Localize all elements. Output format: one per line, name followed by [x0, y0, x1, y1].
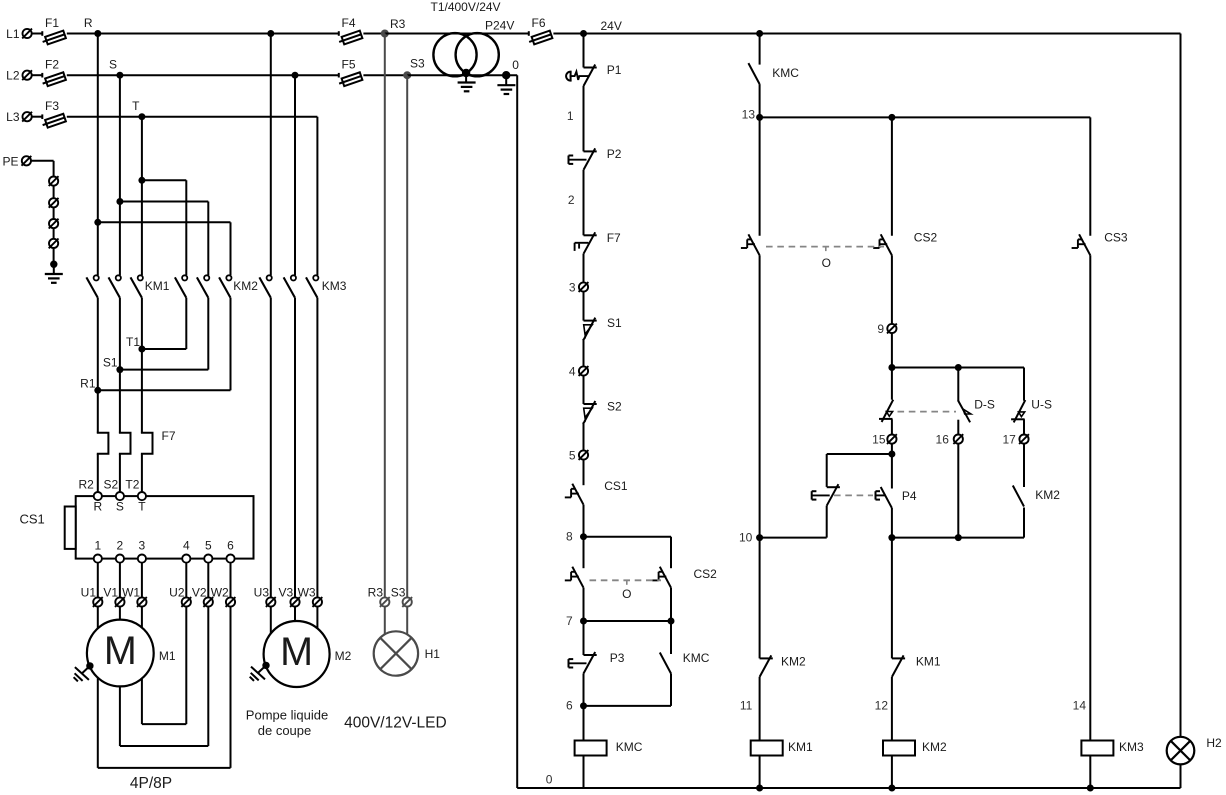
wire KM1 NC to coil KM2 — [875, 677, 892, 741]
fuse F6 — [528, 16, 553, 46]
contact KM2 NC interlock — [760, 655, 806, 677]
wire KMC contact to node 13 — [759, 84, 761, 117]
coil KMC — [575, 740, 643, 756]
contactor KM3 main contacts — [259, 275, 346, 298]
svg-text:CS2: CS2 — [914, 231, 938, 245]
node S3 (lamp circuit) — [403, 57, 425, 80]
terminal U2 — [169, 586, 191, 607]
wire U1 into motor M1 — [97, 607, 99, 629]
svg-text:R: R — [93, 500, 102, 514]
coil KM1 — [751, 740, 813, 756]
limit switch S2 NC — [584, 400, 623, 424]
wire node 8 branch to CS2 right contact — [584, 537, 672, 569]
transformer centre-tap ground node — [462, 69, 470, 77]
wire CS1 to node 8 — [583, 505, 585, 537]
wire T bus down to KM1 — [141, 117, 143, 276]
wire CS1 pin2 to terminal V1 — [119, 563, 121, 598]
wire F1 to node R — [67, 33, 98, 35]
svg-text:S2: S2 — [104, 478, 119, 492]
svg-text:R3: R3 — [390, 17, 406, 31]
pushbutton P2 NC — [569, 147, 622, 170]
pushbutton P4 twin contact NC — [812, 484, 840, 506]
terminal 15 — [872, 432, 897, 446]
fuse F3 — [41, 99, 66, 129]
junction 24V rail / KMC contact — [756, 30, 763, 37]
CS1 pin 1 — [94, 539, 102, 563]
wire U3 into motor M2 — [270, 607, 272, 634]
label Pompe liquide de coupe — [246, 708, 328, 739]
svg-text:T: T — [138, 500, 146, 514]
limit switch S1 NC — [584, 316, 623, 340]
svg-text:S3: S3 — [410, 57, 425, 71]
wire KM3 pole2 to terminal V3 — [294, 298, 296, 598]
svg-text:KMC: KMC — [683, 651, 710, 665]
node T — [132, 99, 145, 120]
svg-text:V1: V1 — [103, 586, 118, 600]
node 24V — [580, 19, 622, 37]
svg-text:KMC: KMC — [772, 66, 799, 80]
svg-text:P24V: P24V — [485, 19, 514, 33]
wire KM3 pole3 to terminal W3 — [316, 298, 318, 598]
wire S1 to KM2 pole2 bottom — [120, 298, 208, 370]
svg-text:T: T — [132, 99, 140, 113]
wire D-S branch down — [957, 368, 959, 402]
fuse F2 — [41, 58, 66, 88]
wire F4 to node R3 — [363, 33, 384, 35]
svg-text:T1: T1 — [126, 335, 140, 349]
wire node 15b to P4 — [891, 454, 893, 489]
wire W3 into motor M2 — [316, 607, 318, 629]
wire node 15b to P4 twin NC — [827, 454, 892, 487]
svg-text:10: 10 — [739, 530, 753, 544]
cam switch CS2 contact (col3) NO — [873, 231, 937, 256]
wire L2 to fuse F2 — [32, 74, 43, 76]
pushbutton P3 NC — [569, 651, 625, 674]
wire 24V to P1 — [583, 34, 585, 68]
svg-text:R: R — [84, 16, 93, 30]
wire to terminal 15 — [891, 419, 893, 434]
svg-text:M1: M1 — [159, 649, 176, 663]
svg-text:KM2: KM2 — [781, 655, 806, 669]
wire KMC aux to node 6 — [584, 674, 672, 706]
CS1 pin S — [116, 492, 124, 514]
svg-text:W2: W2 — [211, 586, 229, 600]
terminal V2 — [192, 586, 213, 607]
wire CS3 column down — [1089, 117, 1091, 235]
wire S1 to terminal 4 — [583, 340, 585, 367]
pushbutton P1 emergency stop NC — [566, 63, 622, 86]
terminal W3 — [298, 586, 323, 607]
wire CS1 pin6 to terminal W2 — [230, 563, 232, 598]
limit switch D-S NC — [958, 398, 995, 423]
junction T branch to KM2 — [138, 177, 145, 184]
coil KM3 — [1081, 740, 1144, 756]
wire L3 drop to KM3 pole3 — [316, 117, 318, 276]
svg-text:8: 8 — [566, 530, 573, 544]
terminal 9 — [877, 322, 896, 336]
svg-text:P4: P4 — [902, 489, 917, 503]
node PE supply terminal — [2, 154, 31, 168]
wire V3 into motor M2 — [294, 607, 296, 621]
svg-text:F1: F1 — [45, 16, 59, 30]
label 4P/8P — [130, 775, 172, 792]
wire CS1 pin1 to terminal U1 — [97, 563, 99, 598]
wire P3 to node 6 — [583, 674, 585, 706]
wire lamp H2 to 0 rail — [1180, 764, 1182, 788]
cam link dashed CS2 pair 2 — [766, 247, 884, 270]
svg-text:17: 17 — [1002, 432, 1016, 446]
motor M2 — [264, 621, 352, 687]
wire KM3 pole1 to terminal U3 — [270, 298, 272, 598]
wire S3 to transformer bottom and 0 corner — [407, 74, 517, 76]
node L1 supply terminal — [6, 27, 32, 41]
svg-text:5: 5 — [569, 448, 576, 462]
wire T1 to KM2 pole1 bottom — [142, 298, 186, 349]
wire L1 bus to KM3 branch — [98, 33, 271, 35]
wire L2 drop to KM3 pole2 — [294, 75, 296, 275]
svg-text:CS3: CS3 — [1104, 231, 1128, 245]
motor M1 — [87, 620, 176, 687]
svg-text:P1: P1 — [607, 63, 622, 77]
svg-text:F3: F3 — [45, 99, 59, 113]
svg-text:0: 0 — [546, 773, 553, 787]
cam switch contact CS1 NO — [565, 479, 628, 505]
svg-text:F7: F7 — [162, 429, 176, 443]
PE chain terminal 1 — [49, 176, 59, 186]
PE chain terminal 4 — [49, 239, 59, 249]
wire KM2 NC to coil KM1 — [740, 677, 760, 741]
wire CS2 col2 to node 10 — [759, 255, 761, 537]
junction D-S bottom — [955, 534, 962, 541]
wire U-S to terminal 17 — [1023, 419, 1025, 434]
svg-text:S3: S3 — [391, 586, 406, 600]
pushbutton P4 NO — [876, 487, 917, 508]
svg-text:4: 4 — [183, 539, 190, 553]
terminal W1 — [122, 586, 147, 607]
wire node10 row across — [760, 508, 1024, 538]
node 8 — [566, 530, 587, 544]
wire S3 down to lamp terminal — [406, 75, 408, 597]
svg-text:13: 13 — [742, 108, 756, 122]
CS1 pin 3 — [138, 539, 146, 563]
node A junction — [888, 364, 895, 371]
terminal U1 — [81, 586, 103, 607]
node L3 supply terminal — [6, 110, 32, 124]
svg-text:F5: F5 — [342, 58, 356, 72]
node T1 — [126, 335, 145, 353]
wire M1 winding2 U2 link — [142, 607, 186, 724]
wire node 13 to CS3 column — [760, 116, 1091, 118]
wire F7 to terminal 3 — [583, 254, 585, 283]
svg-text:KM1: KM1 — [788, 740, 813, 754]
wire node 1 — [567, 86, 584, 151]
thermal contact F7 NC — [575, 231, 621, 254]
ground symbol transformer — [458, 73, 476, 91]
svg-text:T2: T2 — [125, 478, 139, 492]
wire CS1 pin5 to terminal V2 — [207, 563, 209, 598]
svg-text:H2: H2 — [1206, 736, 1222, 750]
wire CS1 pin4 to terminal U2 — [185, 563, 187, 598]
terminal R3 lamp — [368, 586, 390, 607]
svg-text:R1: R1 — [80, 377, 96, 391]
terminal 4 — [569, 364, 589, 378]
cam switch CS2 right contact NO — [652, 567, 717, 588]
svg-text:S: S — [116, 500, 124, 514]
wire node A to D-S and U-S branches — [892, 368, 1024, 401]
junction D-S branch — [955, 364, 962, 371]
svg-text:PE: PE — [2, 154, 18, 168]
contactor KM1 main contacts — [86, 275, 169, 298]
svg-text:U3: U3 — [254, 586, 270, 600]
wire R branch to KM2 pole3 — [98, 222, 231, 275]
svg-text:12: 12 — [875, 699, 889, 713]
svg-text:M: M — [104, 629, 137, 673]
wire — [53, 248, 55, 264]
wire terminal 4 to S2 — [583, 376, 585, 404]
PE chain terminal 2 — [49, 198, 59, 208]
wire T phase to overload F7 — [141, 349, 143, 433]
svg-text:3: 3 — [139, 539, 146, 553]
CS1 pin 2 — [116, 539, 124, 563]
wire 24V rail — [584, 33, 1181, 35]
wire L3 bus to KM3 column — [142, 116, 318, 118]
wire S branch to KM2 pole2 — [120, 202, 208, 276]
PE chain terminal 3 — [49, 219, 59, 229]
terminal S3 lamp — [391, 586, 412, 607]
svg-text:KM2: KM2 — [1035, 488, 1060, 502]
wire KM1 pole3 down to node T1 — [141, 298, 143, 349]
wire W1 into motor M1 — [141, 607, 143, 629]
node S1 — [103, 356, 124, 374]
wire F7 to CS1 terminal S (S2) — [119, 454, 121, 492]
wire terminal 9 to node A — [891, 333, 893, 367]
svg-text:0: 0 — [512, 58, 519, 72]
CS1 pin T — [138, 492, 146, 514]
svg-text:CS2: CS2 — [694, 567, 718, 581]
wire CS1 pin3 to terminal W1 — [141, 563, 143, 598]
svg-text:T1/400V/24V: T1/400V/24V — [431, 0, 501, 14]
transformer T1 400V/24V — [431, 0, 515, 76]
svg-text:S2: S2 — [607, 400, 622, 414]
svg-text:4: 4 — [569, 364, 576, 378]
wire P4 to node 12 row — [891, 508, 893, 538]
svg-text:KM1: KM1 — [916, 655, 941, 669]
wire node 6 to coil KMC — [583, 706, 585, 741]
svg-text:W1: W1 — [122, 586, 140, 600]
svg-text:KM1: KM1 — [145, 279, 170, 293]
overload relay F7 heater elements — [98, 429, 176, 454]
wire F7 to CS1 terminal R (R2) — [97, 454, 99, 492]
svg-text:KM3: KM3 — [1119, 740, 1144, 754]
svg-text:24V: 24V — [601, 19, 622, 33]
svg-text:KM2: KM2 — [233, 279, 258, 293]
wire bottom 0 rail — [584, 787, 1181, 789]
fuse F1 — [41, 16, 66, 46]
svg-text:11: 11 — [740, 699, 753, 713]
auxiliary contact KMC NO (hold-in) — [660, 651, 710, 674]
svg-text:CS1: CS1 — [604, 479, 628, 493]
wire transformer secondary to fuse F6 — [477, 33, 529, 35]
svg-text:2: 2 — [568, 193, 575, 207]
wire L1 drop to KM3 pole1 — [270, 34, 272, 276]
coil KM2 — [883, 740, 947, 756]
wire terminal 16 to bottom row — [957, 444, 959, 538]
wire PE to terminal chain — [31, 161, 53, 177]
wire S bus down to KM1 — [119, 75, 121, 275]
cam switch CS1 body — [20, 496, 254, 558]
wire transformer primary-secondary tangent — [455, 33, 477, 35]
svg-text:P2: P2 — [607, 147, 622, 161]
fuse F5 — [338, 58, 363, 88]
node under P4 — [888, 534, 895, 541]
wire node 2 — [568, 170, 584, 235]
node 10 — [739, 530, 763, 544]
wire — [53, 186, 55, 198]
wire R3 to transformer primary — [385, 33, 455, 35]
svg-text:S: S — [109, 58, 117, 72]
wire terminal 5 to CS1 contact — [583, 460, 585, 486]
svg-text:U1: U1 — [81, 586, 97, 600]
wire KM1 pole1 down to node R1 — [97, 298, 99, 391]
svg-text:7: 7 — [566, 614, 573, 628]
node R — [84, 16, 101, 37]
node R3 (lamp circuit) — [381, 17, 406, 38]
wire lamp terminal R3 to H1 — [384, 607, 386, 637]
wire L1 to fuse F1 — [32, 33, 43, 35]
node L2 supply terminal — [6, 69, 32, 83]
svg-text:U-S: U-S — [1031, 398, 1052, 412]
node R1 — [80, 377, 101, 394]
lamp H2 — [1167, 736, 1222, 764]
svg-text:D-S: D-S — [974, 398, 995, 412]
svg-text:16: 16 — [936, 432, 950, 446]
svg-text:F2: F2 — [45, 58, 59, 72]
wire 24V to KMC contact — [759, 34, 761, 65]
cam switch CS3 contact NO — [1072, 231, 1128, 256]
wire P4 twin to bottom row — [826, 506, 828, 538]
terminal 17 — [1002, 432, 1028, 446]
svg-text:14: 14 — [1073, 699, 1087, 713]
wire node 7 to KMC aux — [670, 621, 672, 654]
wire coil KMC to 0 rail — [583, 756, 585, 789]
wire F6 to 24V node — [553, 33, 583, 35]
wire terminal 3 to S1 — [583, 292, 585, 321]
CS1 pin 5 — [204, 539, 212, 563]
wire S phase to overload F7 — [119, 370, 121, 433]
svg-text:P3: P3 — [610, 651, 625, 665]
wire L1 to fuse F4 — [271, 33, 339, 35]
node S — [109, 58, 123, 79]
wire M1 winding2 V2 link — [120, 607, 208, 746]
svg-text:O: O — [622, 587, 631, 601]
svg-text:L1: L1 — [6, 27, 20, 41]
motor M2 ground — [250, 662, 270, 681]
contactor KM2 main contacts — [175, 275, 258, 298]
wire F7 to CS1 terminal T (T2) — [141, 454, 143, 492]
fuse F4 — [338, 16, 363, 46]
wire coil KM3 to 0 rail — [1087, 756, 1094, 792]
node 0 — [502, 58, 519, 79]
wire coil KM1 to 0 rail — [756, 756, 763, 792]
label S2 — [104, 478, 119, 492]
CS1 pin 4 — [182, 539, 190, 563]
label 0 bottom rail — [546, 773, 553, 787]
svg-text:CS1: CS1 — [20, 512, 45, 527]
cam switch CS2 left contact NO — [565, 567, 584, 588]
terminal V1 — [103, 586, 124, 607]
svg-text:3: 3 — [569, 280, 576, 294]
terminal 5 — [569, 448, 589, 462]
svg-text:400V/12V-LED: 400V/12V-LED — [344, 715, 447, 732]
svg-text:F6: F6 — [532, 16, 546, 30]
terminal U3 — [254, 586, 276, 607]
wire 24V rail to lamp H2 — [1180, 34, 1182, 738]
svg-text:S1: S1 — [103, 356, 118, 370]
label 14 — [1073, 699, 1087, 713]
wire terminal 17 to KM2 aux contact — [1023, 444, 1025, 487]
terminal 3 — [569, 280, 589, 294]
svg-text:5: 5 — [205, 539, 212, 553]
svg-text:2: 2 — [117, 539, 124, 553]
svg-text:15: 15 — [872, 432, 886, 446]
wire L2 to fuse F5 — [295, 74, 339, 76]
svg-text:9: 9 — [877, 322, 884, 336]
svg-text:6: 6 — [566, 699, 573, 713]
svg-text:KM3: KM3 — [322, 279, 347, 293]
svg-text:KM2: KM2 — [922, 740, 947, 754]
terminal 16 — [936, 432, 964, 446]
cam link dashed P4 — [834, 494, 873, 496]
wire CS2 col3 to terminal 9 — [891, 255, 893, 324]
svg-text:KMC: KMC — [616, 740, 643, 754]
wire R phase to overload F7 — [97, 390, 99, 432]
wire L3 to fuse F3 — [32, 116, 43, 118]
motor M1 ground — [74, 662, 94, 681]
wire M1 winding2 W2 link — [98, 607, 231, 768]
ground symbol 0V — [497, 75, 515, 94]
wire D-S to terminal 16 — [957, 420, 959, 435]
wire R1 to KM2 pole3 bottom — [98, 298, 231, 391]
CS1 pin R — [93, 492, 102, 514]
wire lamp terminal S3 to H1 — [406, 607, 408, 637]
wire CS2 left to node 7 — [583, 588, 585, 621]
label 400V/12V-LED — [344, 715, 447, 732]
wire V1 into motor M1 — [119, 607, 121, 620]
label T2 — [125, 478, 139, 492]
cam link dashed D-S — [898, 411, 957, 413]
wire F5 to node S3 — [363, 74, 407, 76]
CS1 pin 6 — [226, 539, 234, 563]
svg-text:M: M — [280, 630, 313, 674]
svg-text:R2: R2 — [78, 478, 94, 492]
wire CS3 to node 14 — [1089, 255, 1091, 740]
wire junction 13 down to CS2 col3 contact — [891, 117, 893, 235]
node 6 — [566, 699, 587, 713]
svg-text:6: 6 — [227, 539, 234, 553]
svg-text:L3: L3 — [6, 110, 20, 124]
svg-text:de coupe: de coupe — [258, 723, 312, 738]
svg-text:F4: F4 — [342, 16, 356, 30]
wire node 8 down to CS2 left contact — [583, 537, 585, 569]
contact KM1 NC interlock — [892, 655, 941, 677]
wire R3 down to lamp terminal — [384, 34, 386, 598]
wire S2 to terminal 5 — [583, 423, 585, 450]
junction R branch to KM2 — [94, 219, 101, 226]
svg-text:F7: F7 — [607, 231, 621, 245]
wire node 7 to P3 — [583, 621, 585, 655]
wire node 10 to KM2 NC — [759, 538, 761, 659]
ground symbol PE — [45, 264, 63, 283]
